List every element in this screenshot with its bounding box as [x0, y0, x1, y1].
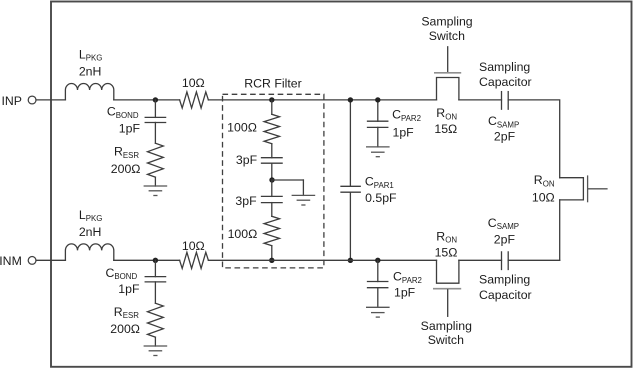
svg-text:RESR: RESR [114, 144, 139, 159]
svg-text:INM: INM [0, 254, 22, 268]
wire R2 to switch M2 [208, 259, 436, 261]
capacitor CPAR2 top 1pF [368, 100, 422, 147]
ground CPAR2 bottom [366, 307, 390, 317]
ground for RESR1 [144, 177, 168, 195]
svg-text:15Ω: 15Ω [435, 246, 458, 260]
svg-text:CSAMP: CSAMP [488, 216, 519, 231]
node G junction CPAR2 top [375, 97, 380, 102]
capacitor CBOND1 1pF [107, 100, 166, 143]
svg-text:0.5pF: 0.5pF [365, 191, 397, 205]
svg-text:2nH: 2nH [79, 225, 102, 239]
wire L2 to R2 [114, 259, 180, 261]
transistor M1 sampling switch top [421, 15, 472, 136]
capacitor CPAR2 bottom 1pF [368, 260, 422, 307]
node E junction CPAR1 top [348, 97, 353, 102]
node C mid junction of RCR [269, 177, 274, 182]
node B junction top of RCR [269, 97, 274, 102]
capacitor CPAR1 0.5pF [341, 100, 397, 260]
ground CPAR2 top [366, 147, 390, 157]
node INM terminal [0, 254, 36, 268]
wire M3 down to bottom rail [559, 200, 561, 260]
svg-text:1pF: 1pF [119, 121, 141, 135]
wire INM to L2 [36, 259, 65, 261]
svg-text:LPKG: LPKG [79, 208, 103, 223]
resistor R1 10ohm [180, 76, 209, 108]
transistor M2 sampling switch bottom [421, 229, 472, 347]
resistor R2 10ohm [180, 239, 209, 268]
wire mid junction to ground [272, 179, 303, 181]
svg-text:Capacitor: Capacitor [479, 288, 532, 302]
svg-text:2nH: 2nH [79, 64, 102, 78]
svg-text:RON: RON [534, 173, 555, 188]
svg-text:CPAR2: CPAR2 [393, 270, 422, 285]
svg-text:1pF: 1pF [394, 285, 416, 299]
svg-text:2pF: 2pF [494, 233, 516, 247]
svg-text:15Ω: 15Ω [434, 122, 457, 136]
ground for RESR2 [144, 337, 168, 355]
node D junction bottom of RCR [269, 258, 274, 263]
svg-text:100Ω: 100Ω [228, 227, 258, 241]
capacitor CBOND2 1pF [106, 260, 166, 303]
wire M1 to CSAMP1 [459, 99, 502, 101]
wire L1 to R1 [114, 99, 180, 101]
svg-text:INP: INP [2, 94, 23, 108]
capacitor C1 3pF upper [236, 144, 282, 180]
wire M2 to CSAMP2 [459, 259, 502, 261]
wire CSAMP2 to right branch [508, 259, 560, 261]
svg-text:RON: RON [436, 229, 457, 244]
node F junction CPAR1 bottom [348, 258, 353, 263]
svg-text:10Ω: 10Ω [532, 191, 555, 205]
inductor L2 LPKG 2nH [65, 208, 113, 260]
capacitor CSAMP1 2pF [479, 60, 532, 144]
capacitor CSAMP2 2pF [479, 216, 532, 302]
wire R1 to switch M1 [208, 99, 436, 101]
svg-text:CPAR2: CPAR2 [392, 107, 421, 122]
node H junction [153, 258, 158, 263]
svg-text:1pF: 1pF [118, 282, 140, 296]
svg-text:10Ω: 10Ω [182, 76, 205, 90]
node INP terminal [2, 94, 37, 108]
ground mid RCR [292, 180, 316, 205]
wire INP to L1 [36, 99, 65, 101]
svg-text:3pF: 3pF [235, 194, 257, 208]
resistor RESR1 200ohm [111, 143, 164, 177]
svg-text:RESR: RESR [114, 305, 139, 320]
svg-text:RON: RON [436, 106, 457, 121]
svg-text:3pF: 3pF [236, 153, 258, 167]
svg-text:2pF: 2pF [494, 130, 516, 144]
svg-text:200Ω: 200Ω [110, 322, 140, 336]
svg-text:CBOND: CBOND [107, 105, 139, 120]
transistor M3 RON 10ohm right [532, 173, 608, 204]
svg-text:1pF: 1pF [393, 125, 415, 139]
svg-text:Capacitor: Capacitor [479, 75, 532, 89]
svg-text:Sampling: Sampling [479, 273, 530, 287]
svg-text:10Ω: 10Ω [182, 239, 205, 253]
svg-text:200Ω: 200Ω [111, 162, 141, 176]
svg-text:RCR Filter: RCR Filter [244, 76, 301, 90]
svg-text:CSAMP: CSAMP [488, 114, 519, 129]
resistor RESR2 200ohm [110, 303, 163, 337]
svg-text:LPKG: LPKG [79, 47, 103, 62]
svg-text:100Ω: 100Ω [227, 121, 257, 135]
svg-text:Switch: Switch [428, 333, 464, 347]
RCR Filter dashed box [223, 76, 324, 268]
svg-text:Sampling: Sampling [479, 60, 530, 74]
node A junction [153, 97, 158, 102]
wire CSAMP1 to right branch [508, 100, 560, 178]
resistor R3 100ohm upper [227, 100, 279, 144]
svg-text:CBOND: CBOND [106, 266, 138, 281]
svg-text:Sampling: Sampling [421, 319, 472, 333]
inductor L1 LPKG 2nH [65, 47, 113, 100]
resistor R4 100ohm lower [228, 216, 280, 260]
svg-text:CPAR1: CPAR1 [365, 175, 394, 190]
node I junction CPAR2 bottom [375, 258, 380, 263]
svg-text:Switch: Switch [429, 29, 465, 43]
capacitor C2 3pF lower [235, 180, 282, 216]
svg-text:Sampling: Sampling [421, 15, 472, 29]
